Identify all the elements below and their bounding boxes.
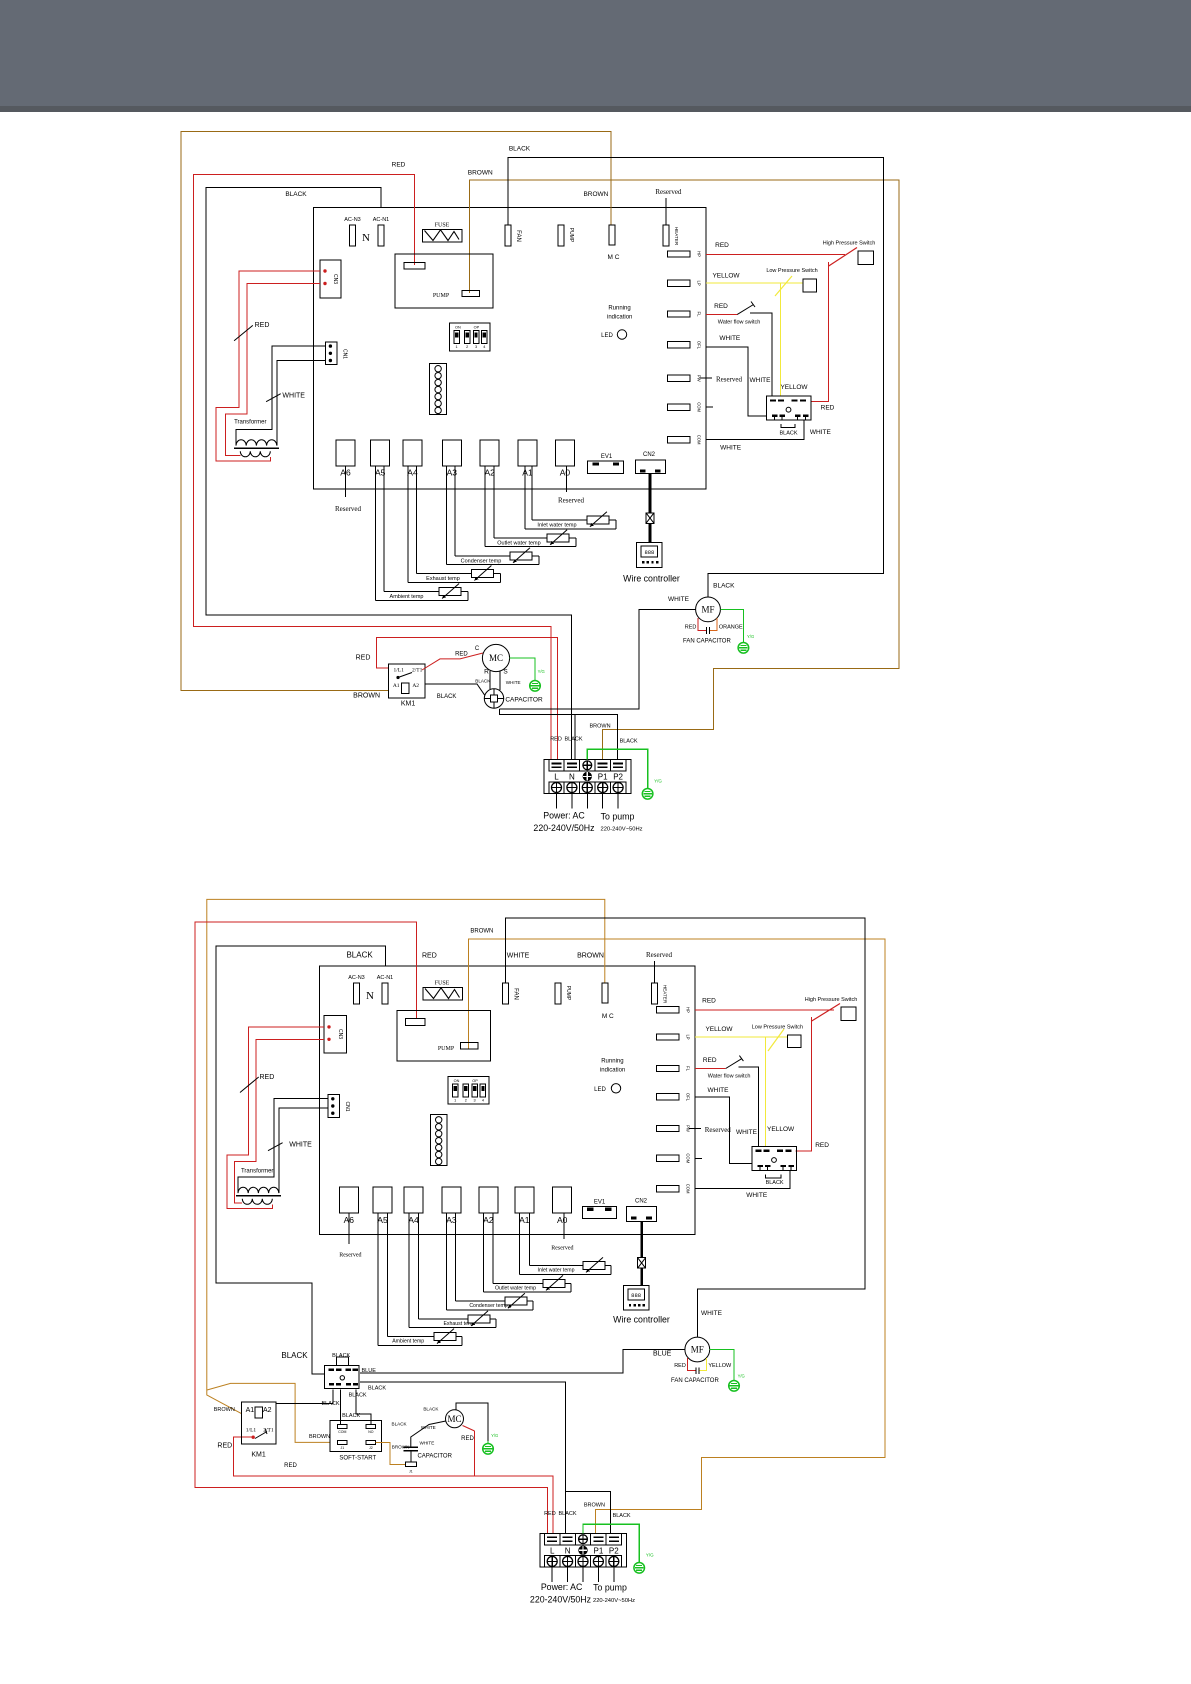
svg-text:WHITE: WHITE xyxy=(701,1310,723,1317)
svg-text:BROWN: BROWN xyxy=(353,693,380,700)
svg-text:Water flow switch: Water flow switch xyxy=(718,319,761,325)
svg-text:WHITE: WHITE xyxy=(289,1142,312,1149)
svg-text:HP: HP xyxy=(697,251,702,257)
svg-text:WHITE: WHITE xyxy=(719,335,741,342)
svg-text:BLACK: BLACK xyxy=(281,1351,308,1360)
svg-text:J1: J1 xyxy=(409,1470,413,1474)
svg-text:Inlet water temp: Inlet water temp xyxy=(537,522,576,528)
svg-text:High Pressure Switch: High Pressure Switch xyxy=(823,240,876,246)
svg-text:N: N xyxy=(362,232,370,244)
svg-text:4: 4 xyxy=(483,345,485,349)
svg-text:Transformer: Transformer xyxy=(241,1169,273,1175)
svg-text:J2: J2 xyxy=(369,1446,373,1450)
svg-text:CN3: CN3 xyxy=(332,274,338,284)
svg-text:CN2: CN2 xyxy=(643,452,656,458)
svg-text:Power: AC: Power: AC xyxy=(543,811,585,821)
svg-text:WHITE: WHITE xyxy=(419,1441,434,1446)
svg-text:Inlet water temp: Inlet water temp xyxy=(538,1267,575,1273)
svg-text:AC-N1: AC-N1 xyxy=(377,975,394,981)
svg-text:BROWN: BROWN xyxy=(584,1502,605,1508)
svg-text:A1: A1 xyxy=(519,1215,530,1225)
svg-text:COM: COM xyxy=(338,1430,346,1434)
svg-text:WHITE: WHITE xyxy=(810,429,832,436)
svg-text:RED: RED xyxy=(356,655,371,662)
svg-text:BLUE: BLUE xyxy=(362,1368,377,1374)
svg-text:EV1: EV1 xyxy=(594,1200,606,1206)
svg-text:RED: RED xyxy=(703,1057,717,1064)
svg-text:4: 4 xyxy=(482,1098,484,1102)
svg-text:EV1: EV1 xyxy=(601,454,613,460)
svg-text:M C: M C xyxy=(602,1013,614,1020)
svg-text:To pump: To pump xyxy=(601,812,635,822)
svg-text:BROWN: BROWN xyxy=(589,723,610,729)
svg-text:LED: LED xyxy=(601,333,613,339)
svg-text:RED: RED xyxy=(422,953,437,960)
svg-text:BLACK: BLACK xyxy=(475,678,491,683)
svg-text:BLACK: BLACK xyxy=(368,1386,386,1392)
svg-text:BLACK: BLACK xyxy=(779,430,797,436)
svg-text:Exhaust temp: Exhaust temp xyxy=(426,576,460,582)
svg-text:2: 2 xyxy=(465,1098,467,1102)
svg-text:Y/G: Y/G xyxy=(747,634,754,639)
svg-text:A1: A1 xyxy=(393,683,400,689)
svg-text:Running: Running xyxy=(608,306,630,312)
svg-text:Reserved: Reserved xyxy=(716,376,743,384)
svg-text:WHITE: WHITE xyxy=(708,1087,730,1094)
svg-text:LP: LP xyxy=(697,281,702,286)
svg-text:OP: OP xyxy=(472,1079,478,1083)
svg-text:PUMP: PUMP xyxy=(438,1046,455,1052)
svg-text:BLACK: BLACK xyxy=(285,191,307,198)
svg-text:220-240V~50Hz: 220-240V~50Hz xyxy=(593,1598,635,1604)
svg-text:Reserved: Reserved xyxy=(558,497,585,505)
svg-text:BROWN: BROWN xyxy=(468,170,493,177)
svg-text:A2: A2 xyxy=(483,1215,494,1225)
svg-text:FUSE: FUSE xyxy=(435,981,450,987)
svg-text:CN1: CN1 xyxy=(344,1101,350,1111)
svg-text:COM: COM xyxy=(686,1184,691,1194)
svg-text:LP: LP xyxy=(686,1034,691,1039)
svg-text:RED: RED xyxy=(461,1436,474,1442)
svg-text:BLACK: BLACK xyxy=(392,1422,408,1427)
svg-text:N: N xyxy=(569,773,575,782)
svg-text:1: 1 xyxy=(454,1098,456,1102)
svg-text:FAN CAPACITOR: FAN CAPACITOR xyxy=(683,638,731,644)
svg-text:WHITE: WHITE xyxy=(507,953,530,960)
svg-text:High Pressure Switch: High Pressure Switch xyxy=(805,997,858,1003)
svg-text:RED: RED xyxy=(702,998,716,1005)
svg-text:RED: RED xyxy=(284,1463,297,1469)
svg-text:ON: ON xyxy=(455,326,461,330)
svg-text:M C: M C xyxy=(608,254,620,261)
svg-text:BLACK: BLACK xyxy=(620,739,638,745)
svg-text:WHITE: WHITE xyxy=(421,1425,436,1430)
svg-text:S: S xyxy=(503,669,508,676)
svg-text:BROWN: BROWN xyxy=(214,1407,235,1413)
svg-text:MF: MF xyxy=(701,605,714,615)
svg-text:Reserved: Reserved xyxy=(655,188,682,196)
svg-text:3: 3 xyxy=(474,1098,476,1102)
svg-text:Wire controller: Wire controller xyxy=(613,1315,670,1325)
svg-text:BLACK: BLACK xyxy=(437,694,457,700)
svg-text:BLACK: BLACK xyxy=(349,1393,367,1399)
svg-text:FL: FL xyxy=(697,312,702,318)
svg-text:BLACK: BLACK xyxy=(346,951,373,960)
svg-text:BLUE: BLUE xyxy=(653,1350,672,1357)
svg-text:888: 888 xyxy=(644,549,654,556)
svg-text:A0: A0 xyxy=(557,1215,568,1225)
svg-text:RED: RED xyxy=(455,651,468,657)
svg-text:Y/G: Y/G xyxy=(538,669,545,674)
svg-text:WHITE: WHITE xyxy=(746,1192,768,1199)
svg-text:Reserved: Reserved xyxy=(646,951,673,959)
svg-text:COM: COM xyxy=(697,435,702,445)
svg-text:Power: AC: Power: AC xyxy=(541,1582,583,1592)
svg-text:CAPACITOR: CAPACITOR xyxy=(505,697,543,704)
svg-text:BLACK: BLACK xyxy=(564,737,582,743)
svg-text:FUSE: FUSE xyxy=(435,223,450,229)
svg-text:A5: A5 xyxy=(377,1215,388,1225)
svg-text:PUMP: PUMP xyxy=(568,228,574,243)
svg-text:Water flow switch: Water flow switch xyxy=(708,1074,751,1080)
svg-text:C: C xyxy=(475,646,480,652)
svg-text:Y/G: Y/G xyxy=(491,1433,498,1438)
svg-text:BROWN: BROWN xyxy=(583,191,608,198)
svg-text:Y/G: Y/G xyxy=(654,779,662,784)
svg-text:YELLOW: YELLOW xyxy=(705,1026,733,1033)
svg-text:Wire controller: Wire controller xyxy=(623,574,680,584)
svg-text:Condenser temp: Condenser temp xyxy=(461,558,502,564)
svg-text:A0: A0 xyxy=(560,468,571,478)
svg-text:R: R xyxy=(484,669,489,676)
svg-text:Outlet water temp: Outlet water temp xyxy=(495,1285,536,1291)
svg-text:YELLOW: YELLOW xyxy=(708,1363,732,1369)
svg-text:RED: RED xyxy=(544,1511,556,1517)
svg-text:P2: P2 xyxy=(613,773,623,782)
svg-text:P2: P2 xyxy=(609,1546,619,1555)
svg-text:KM1: KM1 xyxy=(251,1451,266,1458)
svg-text:PUMP: PUMP xyxy=(565,986,571,1001)
svg-text:Low Pressure Switch: Low Pressure Switch xyxy=(752,1025,803,1031)
svg-text:RED: RED xyxy=(260,1074,275,1081)
svg-text:WHITE: WHITE xyxy=(668,596,690,603)
svg-text:FAN CAPACITOR: FAN CAPACITOR xyxy=(671,1378,719,1384)
svg-text:To pump: To pump xyxy=(593,1583,627,1593)
svg-text:N: N xyxy=(565,1546,571,1555)
svg-text:A2: A2 xyxy=(412,683,419,689)
svg-text:YELLOW: YELLOW xyxy=(780,384,808,391)
svg-text:Reserved: Reserved xyxy=(705,1126,732,1134)
svg-text:CN1: CN1 xyxy=(342,349,348,359)
svg-text:1/L1: 1/L1 xyxy=(246,1428,257,1434)
svg-text:OFL: OFL xyxy=(697,341,702,350)
svg-text:OFL: OFL xyxy=(686,1093,691,1102)
svg-text:OP: OP xyxy=(474,326,480,330)
svg-text:COM: COM xyxy=(697,402,702,412)
svg-text:1: 1 xyxy=(456,345,458,349)
svg-text:BROWN: BROWN xyxy=(577,953,604,960)
svg-text:Y/G: Y/G xyxy=(646,1553,654,1558)
svg-text:RED: RED xyxy=(685,625,697,631)
svg-text:220-240V/50Hz: 220-240V/50Hz xyxy=(530,1595,591,1605)
svg-text:HEATER: HEATER xyxy=(663,985,668,1004)
svg-text:L: L xyxy=(554,773,559,782)
svg-text:AC-N3: AC-N3 xyxy=(348,975,365,981)
svg-text:WHITE: WHITE xyxy=(506,680,521,685)
svg-text:BLACK: BLACK xyxy=(766,1180,784,1186)
svg-text:indication: indication xyxy=(607,315,632,321)
svg-text:WHITE: WHITE xyxy=(736,1129,758,1136)
svg-text:RED: RED xyxy=(392,162,406,169)
svg-text:YELLOW: YELLOW xyxy=(712,273,740,280)
svg-text:ON: ON xyxy=(454,1079,460,1083)
svg-text:3: 3 xyxy=(475,345,477,349)
svg-text:COM: COM xyxy=(686,1153,691,1163)
svg-text:BLACK: BLACK xyxy=(558,1511,576,1517)
svg-text:BLACK: BLACK xyxy=(713,583,735,590)
svg-text:Condenser temp: Condenser temp xyxy=(469,1303,507,1309)
svg-text:Low Pressure Switch: Low Pressure Switch xyxy=(766,268,817,274)
svg-text:WHITE: WHITE xyxy=(282,393,305,400)
svg-text:SOFT-START: SOFT-START xyxy=(339,1456,376,1462)
svg-text:220-240V~50Hz: 220-240V~50Hz xyxy=(600,827,642,833)
svg-text:MC: MC xyxy=(489,653,503,663)
svg-text:Reserved: Reserved xyxy=(551,1245,573,1251)
svg-text:WHITE: WHITE xyxy=(750,377,772,384)
svg-text:KM1: KM1 xyxy=(401,701,416,708)
svg-text:Transformer: Transformer xyxy=(234,419,266,425)
svg-text:HP: HP xyxy=(686,1007,691,1013)
svg-text:indication: indication xyxy=(600,1067,625,1073)
svg-text:BLACK: BLACK xyxy=(423,1407,439,1412)
svg-text:RED: RED xyxy=(550,737,562,743)
svg-text:RED: RED xyxy=(217,1443,232,1450)
svg-text:RED: RED xyxy=(255,322,270,329)
svg-text:FL: FL xyxy=(686,1066,691,1072)
svg-text:MF: MF xyxy=(691,1345,704,1355)
svg-text:2: 2 xyxy=(466,345,468,349)
svg-text:CN2: CN2 xyxy=(635,1199,648,1205)
svg-text:RED: RED xyxy=(674,1363,686,1369)
svg-text:Y/G: Y/G xyxy=(738,1373,745,1378)
svg-text:FAN: FAN xyxy=(513,988,519,1000)
svg-text:BLACK: BLACK xyxy=(332,1353,350,1359)
svg-text:RED: RED xyxy=(715,242,729,249)
svg-text:A2: A2 xyxy=(263,1407,272,1414)
svg-text:888: 888 xyxy=(631,1292,641,1299)
svg-text:Reserved: Reserved xyxy=(339,1252,361,1258)
svg-text:AC-N3: AC-N3 xyxy=(344,217,361,223)
svg-text:Ambient temp: Ambient temp xyxy=(392,1339,424,1345)
svg-text:Outlet water temp: Outlet water temp xyxy=(497,540,540,546)
svg-text:A2: A2 xyxy=(484,468,495,478)
svg-text:BLACK: BLACK xyxy=(613,1513,631,1519)
svg-text:PUMP: PUMP xyxy=(433,293,450,299)
svg-text:L: L xyxy=(550,1546,555,1555)
svg-text:Running: Running xyxy=(601,1058,623,1064)
svg-text:Ambient temp: Ambient temp xyxy=(390,594,424,600)
svg-text:FAN: FAN xyxy=(515,230,521,242)
svg-text:RED: RED xyxy=(714,303,728,310)
svg-text:P1: P1 xyxy=(594,1546,604,1555)
svg-text:CAPACITOR: CAPACITOR xyxy=(417,1454,452,1460)
svg-text:BROWN: BROWN xyxy=(309,1434,330,1440)
svg-text:AC-N1: AC-N1 xyxy=(373,217,390,223)
svg-text:A4: A4 xyxy=(408,1215,419,1225)
svg-text:N: N xyxy=(366,990,374,1002)
svg-text:2/T1: 2/T1 xyxy=(412,668,423,674)
svg-text:P1: P1 xyxy=(598,773,608,782)
svg-text:MC: MC xyxy=(447,1414,461,1424)
svg-text:Reserved: Reserved xyxy=(335,505,362,513)
svg-text:NO: NO xyxy=(368,1430,374,1434)
svg-text:A1: A1 xyxy=(246,1407,255,1414)
svg-text:ORANGE: ORANGE xyxy=(719,625,743,631)
svg-text:220-240V/50Hz: 220-240V/50Hz xyxy=(533,823,594,833)
svg-text:YELLOW: YELLOW xyxy=(767,1126,795,1133)
svg-text:HEATER: HEATER xyxy=(674,227,679,246)
svg-text:J1: J1 xyxy=(340,1446,344,1450)
svg-text:BLACK: BLACK xyxy=(509,146,531,153)
svg-text:BROWN: BROWN xyxy=(470,928,493,934)
svg-text:WHITE: WHITE xyxy=(720,445,742,452)
svg-text:LED: LED xyxy=(594,1087,606,1093)
svg-text:1/L1: 1/L1 xyxy=(394,668,405,674)
svg-text:RED: RED xyxy=(821,405,835,412)
svg-text:CN3: CN3 xyxy=(337,1029,343,1039)
svg-text:RED: RED xyxy=(815,1142,829,1149)
